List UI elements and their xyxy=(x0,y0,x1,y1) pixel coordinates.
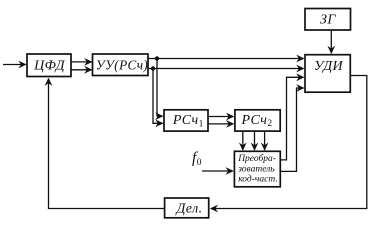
svg-text:УУ(РСч): УУ(РСч) xyxy=(96,58,148,73)
svg-text:ЦФД: ЦФД xyxy=(33,59,66,74)
svg-text:УДИ: УДИ xyxy=(314,59,344,74)
svg-text:ЗГ: ЗГ xyxy=(320,13,336,28)
svg-text:Преобра-: Преобра- xyxy=(237,153,276,164)
svg-text:зователь: зователь xyxy=(237,164,275,174)
svg-text:код-част.: код-част. xyxy=(238,174,278,185)
svg-text:Дел.: Дел. xyxy=(175,201,203,216)
